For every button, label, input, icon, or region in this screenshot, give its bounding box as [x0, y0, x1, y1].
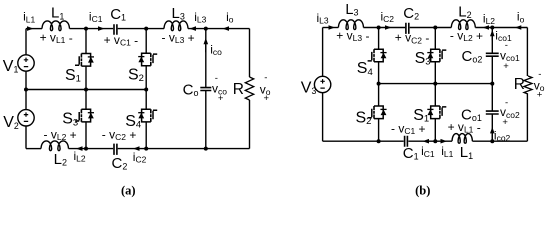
node: (a) mid S1S3 junction: [84, 88, 88, 92]
current arrow i_L1 (b): [441, 139, 448, 144]
wire: (a) top rail seg1: [26, 28, 42, 30]
current arrow i_co1: [490, 30, 495, 37]
node: (a) bottom S3 junction: [84, 147, 88, 151]
inductor L2 (a): [41, 141, 68, 151]
wire: (a) bottom rail seg2: [69, 148, 114, 150]
wire: (a) S2 leg: [145, 29, 147, 90]
wire: (b) bottom rail seg2: [408, 140, 452, 142]
node: (b) bottom S1 junction: [433, 139, 437, 143]
wire: (b) right leg upper: [526, 28, 528, 77]
svg-text:-: -: [505, 98, 508, 109]
inductor L2 (b): [451, 20, 475, 30]
switch S2 (b) (MOSFET): [368, 106, 387, 119]
svg-text:+: +: [503, 61, 509, 72]
wire: (a) S1 leg: [85, 29, 87, 90]
current arrow i_o (a): [223, 26, 230, 31]
node: (a) top Co junction: [204, 27, 208, 31]
wire: (b) S3 leg: [434, 28, 436, 84]
node: (a) bottom S4 junction: [144, 147, 148, 151]
wire: (a) S4 leg: [145, 90, 147, 149]
capacitor C1 (a): [114, 24, 117, 35]
wire: (b) top rail seg2: [363, 27, 405, 29]
capacitor Co2 (top, v_co1): [486, 53, 499, 56]
node: (b) top cap junction: [490, 26, 494, 30]
current arrow i_L3: [190, 26, 197, 31]
svg-text:-: -: [505, 40, 508, 51]
node: (a) mid S2S4 junction: [144, 88, 148, 92]
current arrow i_C1 (b): [423, 139, 430, 144]
wire: (a) left leg lower: [25, 126, 27, 149]
svg-text:R: R: [514, 76, 525, 93]
switch S1 (MOSFET): [75, 54, 94, 67]
wire: (a) right leg upper: [249, 29, 251, 77]
wire: (b) left leg lower: [322, 93, 324, 142]
capacitor C2 (a): [114, 144, 117, 155]
current arrow i_o (b): [515, 25, 522, 30]
svg-text:+: +: [264, 93, 270, 104]
current arrow i_C1: [98, 26, 105, 31]
wire: (b) middle rail: [379, 83, 493, 85]
node: (a) bottom Co junction: [204, 147, 208, 151]
svg-text:-: -: [538, 69, 541, 80]
resistor R (b): [524, 76, 532, 94]
wire: (b) cap leg mid: [491, 56, 493, 111]
node: (a) top S2 junction: [144, 27, 148, 31]
wire: (a) right leg lower: [249, 100, 251, 149]
wire: (b) cap leg lower: [491, 114, 493, 141]
switch S2 (MOSFET): [138, 53, 157, 66]
capacitor C2 (b): [406, 23, 409, 34]
current arrow i_L2 (b): [483, 25, 490, 30]
wire: (a) S3 leg: [85, 90, 87, 149]
wire: (b) S2 leg: [378, 84, 380, 142]
current arrow i_co2: [490, 127, 495, 133]
current arrow i_L3 (b): [329, 25, 336, 30]
current arrow i_L1: [27, 26, 34, 31]
svg-text:+: +: [537, 90, 543, 101]
wire: (a) middle rail: [26, 89, 146, 91]
current arrow i_co: [204, 38, 209, 45]
switch S3 (MOSFET): [75, 109, 94, 122]
wire: (b) right leg lower: [526, 94, 528, 141]
wire: (b) bottom rail seg3: [472, 140, 527, 142]
node: (b) bottom cap junction: [490, 139, 494, 143]
inductor L1 (a): [42, 21, 69, 31]
wire: (b) cap leg upper: [491, 28, 493, 54]
wire: (a) Co leg upper: [205, 29, 207, 88]
wire: (a) bottom rail seg3: [118, 148, 250, 150]
svg-text:-: -: [264, 73, 267, 84]
capacitor Co: [200, 88, 211, 91]
wire: (a) Co leg lower: [205, 91, 207, 149]
wire: (a) top rail seg4: [188, 28, 250, 30]
wire: (b) top rail seg1: [323, 27, 339, 29]
svg-text:+: +: [502, 117, 508, 128]
wire: (a) top rail seg3: [118, 28, 164, 30]
switch S4 (MOSFET): [138, 109, 157, 122]
node: (b) mid S3S1 junction: [433, 82, 437, 86]
inductor L3 (a): [164, 21, 188, 31]
wire: (b) S4 leg: [378, 28, 380, 84]
node: (a) top S1 junction: [84, 27, 88, 31]
node: (b) bottom S2 junction: [377, 139, 381, 143]
svg-text:(b): (b): [415, 184, 430, 198]
svg-text:R: R: [233, 81, 244, 98]
switch S1 (b) (MOSFET): [427, 106, 446, 119]
wire: (b) S1 leg: [434, 84, 436, 142]
node: (b) mid S4S2 junction: [377, 82, 381, 86]
wire: (a) left leg upper: [25, 29, 27, 55]
svg-text:+: +: [218, 93, 224, 104]
current arrow i_L2: [76, 146, 83, 151]
node: (a) mid left junction: [24, 88, 28, 92]
voltage source V3: [314, 76, 330, 92]
current arrow i_C2 (b): [385, 25, 392, 30]
node: (b) top S4 junction: [377, 26, 381, 30]
svg-text:-: -: [215, 73, 218, 84]
node: (b) mid cap junction: [490, 82, 494, 86]
capacitor C1 (b): [405, 136, 408, 147]
voltage source V2: [18, 110, 34, 126]
wire: (a) bottom rail seg1: [26, 148, 41, 150]
inductor L1 (b): [452, 134, 472, 144]
switch S3 (b) (MOSFET): [427, 49, 446, 62]
wire: (a) top rail seg2: [70, 28, 114, 30]
node: (b) top S3 junction: [433, 26, 437, 30]
capacitor Co1 (bottom, v_co2): [486, 111, 499, 114]
wire: (b) bottom rail seg1: [323, 140, 404, 142]
resistor R (a): [245, 77, 253, 100]
voltage source V1: [18, 55, 34, 71]
wire: (b) top rail seg4: [475, 27, 527, 29]
inductor L3 (b): [338, 20, 363, 30]
svg-text:(a): (a): [121, 184, 136, 198]
wire: (b) top rail seg3: [410, 27, 452, 29]
wire: (a) left leg middle: [25, 71, 27, 109]
current arrow i_C2: [133, 146, 140, 151]
switch S4 (b) (MOSFET): [368, 49, 387, 62]
wire: (b) left leg upper: [322, 28, 324, 77]
